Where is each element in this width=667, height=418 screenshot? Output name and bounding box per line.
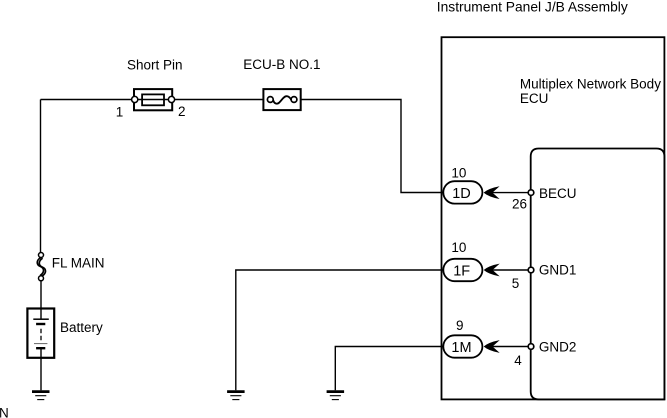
- wire: FL MAIN into battery: [40, 281, 42, 319]
- arrow into 1D: [484, 186, 500, 199]
- svg-text:Multiplex Network Body: Multiplex Network Body: [520, 76, 661, 91]
- svg-text:FL MAIN: FL MAIN: [52, 255, 105, 270]
- svg-text:GND2: GND2: [539, 339, 577, 354]
- wire: short pin to fuse: [172, 99, 263, 101]
- node GND1: [528, 267, 534, 273]
- connector 1M oval: [443, 335, 482, 357]
- wire: arrow to GND2 node: [492, 346, 529, 348]
- ECU U1 inner rounded box (Multiplex Network Body ECU): [531, 149, 665, 400]
- svg-text:4: 4: [514, 353, 522, 368]
- arrow into 1F: [484, 264, 500, 277]
- svg-text:1M: 1M: [451, 340, 471, 356]
- svg-text:Short Pin: Short Pin: [127, 58, 183, 73]
- svg-text:26: 26: [512, 196, 527, 211]
- fusible link FL MAIN: [37, 253, 45, 281]
- node BECU: [528, 190, 534, 196]
- wire: ground branch to connector 1F: [236, 270, 445, 390]
- svg-text:ECU: ECU: [520, 91, 549, 106]
- connector 1D oval: [443, 181, 482, 203]
- wire: ground branch to connector 1M: [335, 347, 445, 391]
- wire: battery to ground: [40, 348, 42, 390]
- svg-text:9: 9: [456, 318, 464, 333]
- wire: arrow to BECU node: [492, 192, 529, 194]
- svg-text:5: 5: [512, 276, 520, 291]
- junction block J/B outer box: [442, 37, 665, 399]
- wire: top horizontal from battery branch to short pin: [41, 99, 135, 101]
- connector 1F oval: [443, 259, 482, 281]
- wire: arrow to GND1 node: [492, 269, 529, 271]
- battery B1: [27, 309, 54, 358]
- svg-text:ECU-B NO.1: ECU-B NO.1: [243, 57, 320, 72]
- short pin terminal 2: [168, 96, 174, 102]
- node GND2: [528, 344, 534, 350]
- svg-text:1: 1: [116, 104, 124, 119]
- ground G1 (battery): [32, 392, 50, 400]
- fuse ECU-B NO.1: [263, 89, 300, 110]
- svg-text:N: N: [0, 406, 9, 418]
- svg-text:2: 2: [178, 104, 186, 119]
- arrow into 1M: [484, 340, 500, 353]
- short pin connector body: [134, 89, 172, 110]
- wire: left vertical battery to top wire: [40, 100, 42, 253]
- svg-text:BECU: BECU: [539, 186, 577, 201]
- svg-text:GND1: GND1: [539, 263, 577, 278]
- ground G2 (1F GND1): [227, 392, 245, 400]
- short pin terminal 1: [132, 96, 138, 102]
- svg-text:1D: 1D: [452, 186, 471, 202]
- svg-text:Battery: Battery: [60, 320, 103, 335]
- wire: through short pin: [134, 99, 172, 101]
- svg-text:10: 10: [451, 240, 466, 255]
- svg-text:10: 10: [451, 165, 466, 180]
- ground G3 (1M GND2): [327, 392, 345, 400]
- wire: fuse to connector 1D (right, down, right): [301, 100, 445, 193]
- svg-text:1F: 1F: [453, 263, 470, 279]
- svg-text:Instrument Panel J/B Assembly: Instrument Panel J/B Assembly: [437, 0, 628, 14]
